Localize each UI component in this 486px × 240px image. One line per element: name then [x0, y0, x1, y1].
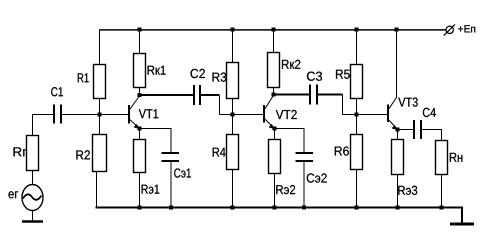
wire bottom rail [96, 207, 463, 209]
resistor R1 [94, 65, 106, 99]
node dot rail bottom R6 [355, 206, 359, 210]
resistor R4 [227, 135, 239, 170]
transistor VT1 [129, 96, 140, 129]
wire emitter3 to C4 [398, 129, 414, 131]
capacitor Ce1 [162, 153, 180, 161]
terminal +Ep [444, 24, 455, 35]
wire R1 top feed [99, 30, 101, 65]
label Re3 [398, 186, 417, 195]
resistor Rr [27, 136, 39, 171]
capacitor C2 [194, 85, 200, 105]
wire Rr bottom to source [32, 171, 34, 185]
node dot rail R5 [355, 28, 359, 32]
wire top rail [99, 29, 446, 31]
label Rn [450, 153, 463, 162]
wire Re3 to rail [397, 175, 399, 208]
capacitor Ce2 [296, 153, 314, 161]
label Rk1 [148, 66, 166, 75]
label Rr [14, 147, 27, 156]
capacitor C4 [414, 120, 421, 139]
label C2 [191, 69, 205, 78]
wire emitter2 to Ce2 [275, 129, 305, 153]
resistor Re3 [392, 140, 404, 175]
wire to base VT3 [343, 114, 388, 116]
wire collector3 to rail [396, 30, 398, 98]
wire corner down [219, 96, 221, 115]
label Rk2 [282, 60, 300, 69]
node dot base3 [355, 113, 359, 117]
resistor Re2 [269, 140, 281, 174]
wire emitter1 down [139, 129, 141, 140]
wire Re2 to rail [274, 174, 276, 208]
wire base VT1 [100, 114, 129, 116]
resistor R5 [351, 65, 363, 99]
label R6 [335, 146, 349, 155]
label VT1 [139, 109, 158, 118]
wire emitter2 down [274, 129, 276, 140]
resistor Rk1 [134, 54, 146, 88]
source eg [22, 185, 43, 211]
source eg sine [23, 194, 42, 199]
wire Ce2 to rail [303, 162, 305, 208]
node dot rail R3 [231, 28, 235, 32]
wire Rn to rail [441, 175, 443, 208]
wire C4 to Rn [422, 130, 442, 141]
wire Rk2 bottom to collector node [273, 88, 275, 95]
label Re1 [142, 185, 160, 194]
label Ce1 [174, 168, 191, 177]
ground right [450, 223, 474, 226]
node dot collector1 [138, 93, 142, 97]
resistor R6 [351, 135, 363, 170]
node dot rail bottom Re1 [138, 206, 142, 210]
wire C3 to corner (thick) [318, 94, 343, 96]
node dot rail bottom Re3 [396, 206, 400, 210]
wire Re1 to rail [139, 173, 141, 208]
wire Rk1 bottom to collector node [139, 88, 141, 96]
resistor Re1 [134, 140, 146, 173]
wire R5 to node [356, 99, 358, 135]
node dot rail Rk1 [138, 28, 142, 32]
wire emitter1 to Ce1 [140, 129, 172, 153]
wire R1 to node [99, 99, 101, 135]
node dot rail VT3 collector [395, 28, 399, 32]
node dot emitter3 [396, 128, 400, 132]
node dot rail bottom R4 [231, 206, 235, 210]
label R3 [213, 73, 227, 82]
node dot rail bottom Rn [440, 206, 444, 210]
label Ep [458, 25, 475, 32]
wire collector1 to C2 (thick) [140, 94, 194, 96]
wire C2 to corner (thick) [201, 94, 220, 96]
node dot base2 [231, 113, 235, 117]
transistor VT3 [388, 98, 398, 130]
wire R5 top [356, 30, 358, 65]
node dot rail bottom Re2 [273, 206, 277, 210]
wire R4 to rail [232, 170, 234, 208]
label VT3 [398, 98, 417, 107]
transistor VT2 [264, 96, 275, 129]
capacitor C3 [310, 85, 317, 105]
wire Rk2 top [273, 30, 275, 53]
label VT2 [276, 110, 297, 119]
capacitor C1 [54, 105, 61, 124]
wire R3 top [232, 30, 234, 63]
wire Ce1 to rail [170, 162, 172, 208]
resistor Rk2 [268, 53, 280, 88]
wire R2 to rail [96, 172, 98, 208]
resistor Rn [436, 141, 448, 175]
wire ground right drop [461, 207, 463, 224]
node dot collector2 [272, 93, 276, 97]
wire collector2 to C3 (thick) [274, 94, 310, 96]
wire source to ground [32, 211, 34, 221]
wire R6 to rail [356, 170, 358, 208]
wire C1 to base node [62, 114, 100, 116]
node dot rail bottom Ce2 [302, 206, 306, 210]
resistor R2 [93, 135, 107, 172]
label C1 [51, 87, 63, 96]
label eg [9, 191, 19, 198]
label R4 [213, 148, 226, 157]
node dot emitter1 [138, 127, 142, 131]
node dot rail bottom Ce1 [169, 206, 173, 210]
wire R3 to node [232, 99, 234, 135]
label C3 [307, 72, 322, 81]
node dot emitter2 [273, 127, 277, 131]
node dot base1 [98, 113, 102, 117]
label Re2 [276, 185, 295, 194]
label R5 [336, 70, 350, 79]
wire Rr top to C1 [33, 115, 54, 136]
label R1 [78, 73, 89, 82]
wire to base VT2 [220, 114, 264, 116]
ground left [22, 220, 43, 223]
wire corner down 2 [342, 95, 344, 115]
resistor R3 [227, 63, 239, 99]
wire emitter3 down [397, 130, 399, 140]
wire Rk1 top [139, 30, 141, 54]
node dot rail Rk2 [272, 28, 276, 32]
label Ce2 [307, 173, 327, 182]
label C4 [423, 108, 436, 117]
label R2 [76, 150, 90, 159]
